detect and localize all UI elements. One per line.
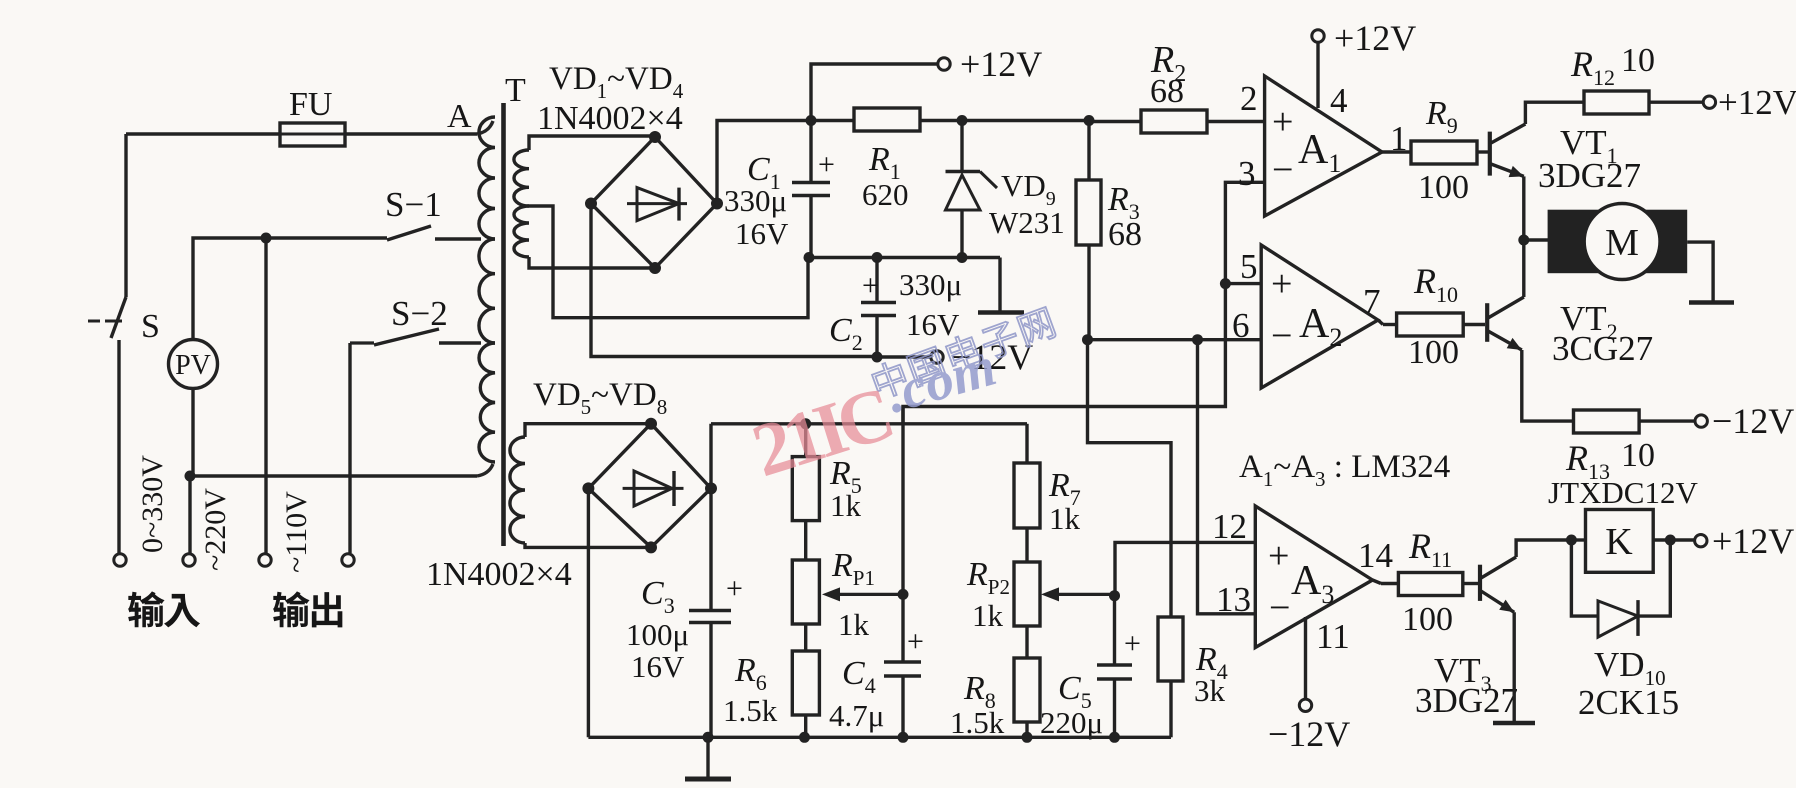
capacitor C4 xyxy=(884,594,921,737)
label VD10 xyxy=(1594,645,1666,690)
RP1 wiper arrow xyxy=(822,587,903,601)
label 100u xyxy=(626,617,689,652)
label 220u xyxy=(1040,705,1103,740)
node relay right xyxy=(1665,535,1676,546)
label -12V left xyxy=(951,337,1033,377)
svg-text:K: K xyxy=(1605,521,1633,563)
transformer primary winding middle xyxy=(479,239,495,343)
label 3CG27 xyxy=(1552,329,1653,368)
transformer primary winding upper xyxy=(479,117,495,239)
wire bridge1 minus down xyxy=(591,204,872,357)
earth bar VT3 xyxy=(1493,721,1535,726)
earth bar common xyxy=(978,310,1024,315)
label 0~330V xyxy=(136,455,169,553)
op-amp A2 xyxy=(1261,245,1378,388)
node A2 pin5 xyxy=(1220,278,1231,289)
label +12V top xyxy=(960,44,1042,84)
label pin2 xyxy=(1240,79,1258,118)
node C2 bottom xyxy=(872,352,883,363)
label -12V A3 xyxy=(1268,714,1350,754)
label 3k xyxy=(1194,673,1226,708)
fuse FU xyxy=(276,123,349,146)
label +12V relay xyxy=(1712,521,1794,561)
svg-text:+12V: +12V xyxy=(1712,521,1794,561)
wire relay right stub xyxy=(1653,538,1670,541)
terminal 4 xyxy=(342,554,354,566)
wire R12 to +12V xyxy=(1649,100,1703,103)
svg-text:1.5k: 1.5k xyxy=(950,705,1005,740)
svg-text:13: 13 xyxy=(1216,580,1251,619)
svg-text:10: 10 xyxy=(1621,437,1655,474)
svg-text:−: − xyxy=(1272,149,1293,191)
wire node to terminal 2 xyxy=(188,476,191,553)
svg-text:16V: 16V xyxy=(735,216,789,251)
label C3 plus xyxy=(726,572,743,605)
node R5 top xyxy=(800,418,811,429)
svg-text:VD5~VD8: VD5~VD8 xyxy=(533,377,667,419)
bridge2 diode symbol xyxy=(623,471,684,506)
wire branch down to A3 pin13 xyxy=(1198,340,1256,614)
label 16V lower xyxy=(906,307,960,342)
label FU xyxy=(289,86,332,123)
label 10 R12 xyxy=(1621,42,1655,79)
terminal +12V top xyxy=(938,58,950,70)
label ~110V xyxy=(280,491,313,573)
label 1k R7 xyxy=(1049,501,1081,536)
svg-text:~220V: ~220V xyxy=(199,488,232,571)
svg-text:1.5k: 1.5k xyxy=(723,693,778,728)
switch S blade xyxy=(88,297,126,338)
svg-text:1N4002×4: 1N4002×4 xyxy=(426,556,572,593)
label R10 xyxy=(1413,261,1458,307)
wire A3 pin12 to C5 node xyxy=(1115,542,1255,595)
wire fuse to transformer primary top xyxy=(345,121,493,134)
label 1.5k R8 xyxy=(950,705,1005,740)
label 1.5k R6 xyxy=(723,693,778,728)
transformer primary winding lower xyxy=(479,343,495,462)
label VT2 xyxy=(1560,299,1618,344)
bridge rectifier VD1-VD4 diamond xyxy=(591,137,717,268)
ground rail xyxy=(588,736,1171,739)
wire secondary1 bottom lead xyxy=(529,257,655,268)
wire mains top to fuse xyxy=(126,132,280,135)
label 100 R9 xyxy=(1418,169,1469,206)
label VD5~VD8 xyxy=(533,377,667,419)
svg-text:330μ: 330μ xyxy=(724,183,787,218)
motor M xyxy=(1548,204,1688,280)
wire VD9 node to R2 node xyxy=(962,119,1089,122)
label R2 xyxy=(1150,39,1186,87)
terminal -12V right xyxy=(1695,415,1707,427)
label 1N4002x4 lower xyxy=(426,556,572,593)
label R13 xyxy=(1565,438,1610,484)
node R2R3 top xyxy=(1084,115,1095,126)
svg-text:220μ: 220μ xyxy=(1040,705,1103,740)
transformer core xyxy=(501,103,506,546)
label 330u lower xyxy=(899,267,962,302)
node C2 top xyxy=(872,252,883,263)
zener diode VD9 xyxy=(946,121,998,259)
node relay left xyxy=(1566,535,1577,546)
svg-text:3CG27: 3CG27 xyxy=(1552,329,1653,368)
svg-text:−: − xyxy=(1271,315,1292,357)
svg-text:1k: 1k xyxy=(1049,501,1081,536)
wire A3 out to R11 xyxy=(1373,580,1399,584)
transformer secondary 1 upper xyxy=(514,150,529,206)
svg-text:7: 7 xyxy=(1363,282,1381,321)
label input (shu-ru) xyxy=(128,591,200,627)
label C5 xyxy=(1058,670,1092,713)
op-amp A3 xyxy=(1255,506,1372,648)
label S-2 xyxy=(391,294,448,333)
svg-text:1k: 1k xyxy=(838,607,870,642)
meter PV xyxy=(169,340,218,389)
resistor R6 xyxy=(792,651,819,737)
label 2CK15 xyxy=(1578,683,1679,722)
resistor R4 xyxy=(1158,617,1183,681)
wire node to motor xyxy=(1524,238,1548,241)
svg-text:620: 620 xyxy=(862,177,909,212)
label pin11 xyxy=(1316,617,1350,656)
label -12V right xyxy=(1712,401,1794,441)
label 3DG27 VT3 xyxy=(1415,681,1518,720)
label 1N4002x4 upper xyxy=(537,100,683,137)
svg-text:+: + xyxy=(1271,263,1292,305)
svg-text:1k: 1k xyxy=(972,598,1004,633)
label C1 plus xyxy=(818,148,835,181)
svg-text:+12V: +12V xyxy=(1334,18,1416,58)
wire VT1 emitter down xyxy=(1522,176,1525,240)
earth bar motor xyxy=(1689,300,1734,305)
wire VT1 collector to R12 xyxy=(1525,102,1584,124)
label output (shu-chu) xyxy=(273,591,342,627)
svg-text:−: − xyxy=(1269,587,1290,629)
svg-text:16V: 16V xyxy=(631,649,685,684)
resistor R11 xyxy=(1398,573,1462,596)
node S1 junction xyxy=(261,233,272,244)
label A2 minus xyxy=(1271,315,1292,357)
wire rail to R7 xyxy=(1025,424,1028,463)
wire R2 to A1 pin2 xyxy=(1207,120,1265,123)
node C1 top xyxy=(806,115,817,126)
svg-text:10: 10 xyxy=(1621,42,1655,79)
wire secondary1 top lead xyxy=(529,136,655,150)
label pin14 xyxy=(1358,536,1393,575)
label 1k RP2 xyxy=(972,598,1004,633)
transistor VT1 xyxy=(1490,124,1526,177)
bridge rectifier VD5-VD8 diamond xyxy=(588,424,711,548)
label 100 R11 xyxy=(1402,601,1453,638)
label pin7 xyxy=(1363,282,1381,321)
svg-text:100: 100 xyxy=(1408,334,1459,371)
wire relay left stub xyxy=(1571,538,1585,541)
label C1 xyxy=(747,151,781,194)
capacitor C1 xyxy=(792,121,830,259)
wire R10 to VT2 base xyxy=(1463,323,1485,326)
svg-text:0~330V: 0~330V xyxy=(136,455,169,553)
wire A3 pin11 xyxy=(1304,617,1307,699)
node R3 bottom xyxy=(1082,334,1093,345)
label pin5 xyxy=(1240,247,1258,286)
resistor R12 xyxy=(1584,91,1649,114)
terminal -12V A3 xyxy=(1299,699,1311,711)
label pin4 xyxy=(1330,81,1348,120)
label VT3 xyxy=(1434,651,1492,696)
svg-text:1N4002×4: 1N4002×4 xyxy=(537,100,683,137)
resistor R8 xyxy=(1014,658,1040,737)
label R12 xyxy=(1570,44,1615,90)
label 1k RP1 xyxy=(838,607,870,642)
label 620 xyxy=(862,177,909,212)
node C1 bottom xyxy=(804,252,815,263)
label 3DG27 xyxy=(1538,156,1641,195)
ground rail nodes xyxy=(703,732,1121,743)
label JTXDC12V xyxy=(1548,475,1698,510)
wire bridge2 minus drop xyxy=(587,488,590,737)
wire to -12V terminal xyxy=(877,355,930,358)
wire common rail to earth xyxy=(998,258,1001,312)
svg-text:1k: 1k xyxy=(830,488,862,523)
capacitor C3 xyxy=(689,488,731,737)
wire +12V tap xyxy=(811,64,937,121)
wire R13 to -12V xyxy=(1639,419,1695,422)
transistor VT2 xyxy=(1487,297,1524,350)
svg-text:2CK15: 2CK15 xyxy=(1578,683,1679,722)
label A2 xyxy=(1299,301,1342,352)
wire junction to switch S-1 xyxy=(266,236,387,239)
label A xyxy=(447,98,472,135)
svg-text:−12V: −12V xyxy=(1268,714,1350,754)
wire R9 to VT1 base xyxy=(1477,150,1488,153)
wire inverting bus to A2 pin6 xyxy=(1088,338,1262,341)
node pin13 branch xyxy=(1192,334,1203,345)
potentiometer RP1 xyxy=(792,521,819,651)
label A2 plus xyxy=(1271,263,1292,305)
svg-text:+: + xyxy=(1272,101,1293,143)
wire motor right to earth xyxy=(1687,242,1713,301)
resistor R1 xyxy=(854,108,920,131)
wire VT2 collector up xyxy=(1522,240,1525,297)
label R7 xyxy=(1048,467,1081,510)
label R3 xyxy=(1107,181,1140,224)
label pin1 xyxy=(1390,119,1408,158)
resistor R3 xyxy=(1076,121,1101,341)
label RP1 xyxy=(831,547,875,590)
node motor left xyxy=(1518,235,1529,246)
wire left drop to switch S xyxy=(124,134,127,297)
label pin6 xyxy=(1232,306,1250,345)
label A3 plus xyxy=(1268,535,1289,577)
wire pin3 riser xyxy=(1225,182,1264,283)
capacitor C2 xyxy=(861,258,896,358)
svg-text:+: + xyxy=(862,269,879,302)
label 10 R13 xyxy=(1621,437,1655,474)
svg-text:12: 12 xyxy=(1212,507,1247,546)
label VD1~VD4 xyxy=(549,61,684,103)
svg-text:+: + xyxy=(726,572,743,605)
wire A2 out to R10 xyxy=(1378,320,1397,325)
potentiometer RP2 xyxy=(1014,528,1040,658)
svg-text:3DG27: 3DG27 xyxy=(1538,156,1641,195)
label VD9 xyxy=(1001,168,1056,210)
svg-text:11: 11 xyxy=(1316,617,1350,656)
wire rail to R1 xyxy=(811,119,854,122)
terminal 1 xyxy=(114,554,126,566)
resistor R2 xyxy=(1141,110,1207,133)
svg-text:330μ: 330μ xyxy=(899,267,962,302)
svg-text:100: 100 xyxy=(1418,169,1469,206)
capacitor C5 xyxy=(1097,596,1132,738)
svg-text:3DG27: 3DG27 xyxy=(1415,681,1518,720)
wire secondary1 center tap xyxy=(529,206,808,318)
svg-text:3k: 3k xyxy=(1194,673,1226,708)
svg-text:+: + xyxy=(818,148,835,181)
label A3 xyxy=(1291,558,1334,609)
svg-text:T: T xyxy=(505,72,526,109)
wire bridge1 plus up to rail xyxy=(717,121,808,204)
label +12V A1 xyxy=(1334,18,1416,58)
label A1~A3 LM324 xyxy=(1239,449,1450,491)
resistor R7 xyxy=(1014,463,1040,528)
op-amp A1 xyxy=(1265,76,1382,216)
label R1 xyxy=(868,141,901,184)
wire node to R2 xyxy=(1089,120,1141,123)
label 68 R2 xyxy=(1150,73,1184,110)
label C2 xyxy=(829,312,863,355)
svg-text:14: 14 xyxy=(1358,536,1393,575)
wire terminal 4 up to switch S-2 xyxy=(350,343,374,553)
svg-text:3: 3 xyxy=(1238,154,1256,193)
earth bar main xyxy=(685,777,731,782)
svg-text:+: + xyxy=(1124,627,1141,660)
wire R3 node down to R4 xyxy=(1088,340,1172,617)
wire bridge2 plus riser xyxy=(709,424,712,489)
svg-text:4.7μ: 4.7μ xyxy=(829,698,884,733)
switch S-1 contact xyxy=(435,237,481,240)
wire switch S to terminal 1 xyxy=(117,340,120,553)
svg-text:+: + xyxy=(1268,535,1289,577)
label A1 xyxy=(1298,127,1341,178)
wire relay to +12V xyxy=(1670,538,1695,541)
bridge2 corner nodes xyxy=(582,418,717,554)
svg-text:−12V: −12V xyxy=(1712,401,1794,441)
label pin12 xyxy=(1212,507,1247,546)
svg-text:+: + xyxy=(907,625,924,658)
switch S-1 blade xyxy=(387,226,431,240)
wire PV top to junction xyxy=(193,238,266,340)
svg-text:6: 6 xyxy=(1232,306,1250,345)
label C5 plus xyxy=(1124,627,1141,660)
label 4.7u xyxy=(829,698,884,733)
wire junction down to terminal 3 xyxy=(264,238,267,553)
node RP1 wiper xyxy=(898,589,909,600)
wire PV bottom to node xyxy=(191,389,194,476)
svg-text:A: A xyxy=(447,98,472,135)
label 68 R3 xyxy=(1108,216,1142,253)
label pin13 xyxy=(1216,580,1251,619)
terminal -12V left xyxy=(931,351,943,363)
svg-text:+12V: +12V xyxy=(1718,83,1796,122)
label ~220V xyxy=(199,488,232,571)
resistor R13 xyxy=(1574,410,1640,433)
svg-text:68: 68 xyxy=(1150,73,1184,110)
label A1 plus xyxy=(1272,101,1293,143)
terminal 3 xyxy=(259,554,271,566)
transformer secondary 1 lower xyxy=(514,206,529,257)
label A1 minus xyxy=(1272,149,1293,191)
wire VT3 collector to relay xyxy=(1516,540,1571,557)
wire VT2 emitter to R13 xyxy=(1522,350,1574,421)
label R8 xyxy=(963,670,996,713)
svg-text:68: 68 xyxy=(1108,216,1142,253)
svg-text:S−1: S−1 xyxy=(385,185,442,224)
wire primary bottom lead xyxy=(190,464,493,476)
label C3 xyxy=(641,575,675,618)
switch S-2 blade xyxy=(374,329,439,345)
svg-text:+12V: +12V xyxy=(960,44,1042,84)
svg-text:JTXDC12V: JTXDC12V xyxy=(1548,475,1698,510)
label 16V C3 xyxy=(631,649,685,684)
label R4 xyxy=(1195,641,1228,684)
svg-text:M: M xyxy=(1605,222,1639,264)
transformer secondary 2 xyxy=(510,437,525,543)
svg-text:FU: FU xyxy=(289,86,332,123)
node VD9 top xyxy=(957,115,968,126)
svg-text:W231: W231 xyxy=(989,205,1065,240)
label +12V right xyxy=(1718,83,1796,122)
bridge1 corner nodes xyxy=(585,131,723,274)
wire secondary2 bottom lead xyxy=(525,543,651,547)
wire wiper bus up to pin5 pin3 xyxy=(903,284,1225,595)
label R6 xyxy=(734,652,767,695)
positive rail lower xyxy=(711,422,1027,425)
wire VT3 emitter to earth xyxy=(1512,612,1515,721)
wire secondary2 top lead xyxy=(525,424,651,437)
terminal 2 xyxy=(183,554,195,566)
label A3 minus xyxy=(1269,587,1290,629)
wire R11 to VT3 base xyxy=(1463,582,1478,585)
label VT1 xyxy=(1560,123,1618,168)
common rail xyxy=(808,256,1000,259)
resistor R10 xyxy=(1397,313,1464,336)
diode VD10 xyxy=(1571,540,1670,637)
label S xyxy=(141,308,160,345)
svg-text:S: S xyxy=(141,308,160,345)
node C5 top xyxy=(1109,590,1120,601)
terminal +12V right xyxy=(1703,96,1715,108)
svg-text:2: 2 xyxy=(1240,79,1258,118)
svg-text:S−2: S−2 xyxy=(391,294,448,333)
transistor VT3 xyxy=(1480,557,1516,612)
label R5 xyxy=(829,455,862,498)
terminal +12V relay xyxy=(1695,535,1707,547)
label S-1 xyxy=(385,185,442,224)
label C4 xyxy=(842,655,876,698)
label W231 xyxy=(989,205,1065,240)
svg-text:100μ: 100μ xyxy=(626,617,689,652)
bridge1 diode symbol xyxy=(627,188,687,221)
label pin3 xyxy=(1238,154,1256,193)
label T xyxy=(505,72,526,109)
label R9 xyxy=(1425,95,1458,138)
wire R4 to ground rail xyxy=(1169,681,1172,737)
wire R1 to VD9 node xyxy=(920,119,962,122)
svg-text:~110V: ~110V xyxy=(280,491,313,573)
label C2 plus xyxy=(862,269,879,302)
RP2 wiper arrow xyxy=(1041,587,1115,601)
resistor R5 xyxy=(792,424,819,521)
resistor R9 xyxy=(1411,141,1477,164)
